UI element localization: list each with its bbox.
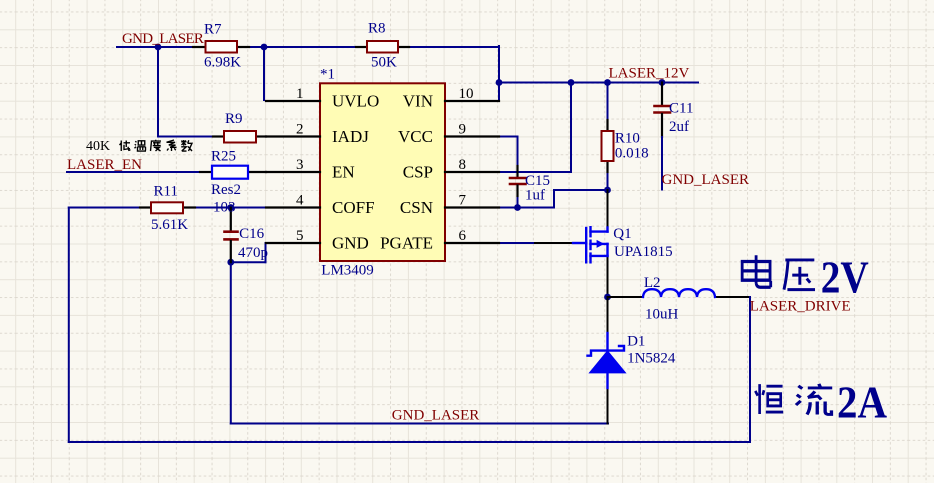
svg-text:10uH: 10uH: [645, 307, 679, 323]
wire L2 coil to LASER_DRIVE corner: [715, 296, 750, 298]
wire R10 bottom segment: [607, 172, 609, 190]
capacitor C15: [510, 166, 526, 196]
svg-text:2A: 2A: [837, 376, 887, 427]
svg-text:5.61K: 5.61K: [151, 217, 188, 233]
hanzi xi (system): [167, 140, 177, 151]
svg-text:0.018: 0.018: [615, 145, 649, 161]
pin 5 GND stub: [266, 242, 320, 244]
svg-text:R11: R11: [154, 184, 178, 200]
inductor L2: [643, 289, 715, 297]
svg-text:GND_LASER: GND_LASER: [122, 31, 204, 47]
wire IADJ branch from top rail to R9: [158, 47, 213, 137]
hanzi wen (temperature): [135, 141, 147, 151]
svg-text:R8: R8: [368, 20, 386, 36]
pin 10 VIN stub: [445, 100, 499, 102]
capacitor C11: [655, 83, 671, 190]
node junction C16 bottom GND net: [227, 259, 234, 266]
node junction COFF at C16 top: [227, 204, 234, 211]
svg-text:R10: R10: [615, 131, 640, 147]
svg-text:PGATE: PGATE: [380, 233, 433, 252]
wire UVLO branch from top rail to pin1: [263, 47, 265, 100]
svg-text:COFF: COFF: [332, 198, 375, 217]
resistor R8: [356, 41, 409, 53]
node junction at C15 bottom pin7: [514, 204, 521, 211]
svg-text:Q1: Q1: [613, 226, 631, 242]
wire D1 anode to GND_LASER: [607, 388, 609, 424]
svg-text:4: 4: [296, 193, 304, 209]
svg-text:VCC: VCC: [398, 127, 433, 146]
IC U1 LM3409 body: [320, 83, 445, 261]
annotation 40K low-temp-coefficient: [86, 139, 192, 154]
node junction LASER_12V at CSP column: [568, 79, 575, 86]
node junction LASER_12V at VIN column: [496, 79, 503, 86]
svg-text:GND_LASER: GND_LASER: [662, 172, 750, 188]
svg-text:6.98K: 6.98K: [204, 55, 241, 71]
annotation voltage 2V: [742, 252, 869, 303]
hanzi du (degree): [151, 140, 162, 151]
svg-text:1N5824: 1N5824: [627, 351, 676, 367]
svg-text:UPA1815: UPA1815: [614, 244, 673, 260]
hanzi heng (constant): [755, 384, 783, 414]
svg-text:9: 9: [459, 122, 467, 138]
hanzi liu (flow): [796, 384, 832, 415]
svg-text:LASER_12V: LASER_12V: [609, 66, 690, 82]
svg-text:2uf: 2uf: [669, 119, 689, 135]
hanzi di (low): [120, 141, 131, 152]
pin 2 IADJ stub: [266, 135, 320, 137]
wire CSP branch from LASER_12V rail to pin8: [499, 83, 571, 173]
svg-text:7: 7: [459, 193, 467, 209]
node junction R10 bottom to Q1 drain: [604, 187, 611, 194]
wire net LASER_EN: [67, 171, 200, 173]
diode D1 1N5824 schottky: [588, 333, 626, 388]
svg-text:R9: R9: [225, 111, 243, 127]
svg-text:2V: 2V: [821, 252, 869, 303]
svg-text:Res2: Res2: [211, 182, 241, 198]
pin 7 CSN stub: [445, 206, 499, 208]
svg-text:UVLO: UVLO: [332, 91, 379, 110]
svg-text:5: 5: [296, 228, 304, 244]
svg-text:470p: 470p: [238, 245, 268, 261]
svg-text:EN: EN: [332, 162, 355, 181]
wire PGATE pin6 to Q1 gate: [499, 242, 573, 244]
svg-text:R25: R25: [211, 148, 236, 164]
svg-text:R7: R7: [204, 21, 222, 37]
wire net LASER_12V rail: [499, 82, 698, 84]
node junction Q1 source / L2 / D1: [604, 294, 611, 301]
wire L2 node to coil: [608, 296, 644, 298]
svg-text:6: 6: [459, 228, 467, 244]
svg-text:GND: GND: [332, 233, 369, 252]
pin 9 VCC stub: [445, 135, 499, 137]
node junction on GND_LASER rail at R7 left: [155, 44, 162, 51]
svg-text:CSN: CSN: [400, 198, 433, 217]
wire VCC pin9 to C15 top: [499, 137, 518, 167]
wire net LASER_DRIVE feedback loop: [69, 208, 750, 443]
resistor R7: [193, 41, 249, 53]
pin 8 CSP stub: [445, 171, 499, 173]
transistor Q1 UPA1815 MOSFET: [573, 227, 608, 262]
wire Q1 source down to L2 node: [607, 257, 609, 297]
pin 3 EN stub: [266, 171, 320, 173]
resistor R9: [213, 131, 266, 143]
node junction LASER_12V at R10 column: [604, 79, 611, 86]
pin 6 PGATE stub: [445, 242, 499, 244]
svg-text:40K: 40K: [86, 139, 110, 154]
hanzi shu (number): [181, 140, 192, 151]
svg-text:GND_LASER: GND_LASER: [392, 407, 480, 423]
capacitor C16: [225, 208, 238, 263]
wire GND pin5 jog to C16 bottom: [231, 243, 266, 262]
resistor R11: [140, 202, 195, 213]
svg-text:3: 3: [296, 157, 304, 173]
wire Q1 drain column: [607, 190, 609, 231]
hanzi dian (electric): [742, 255, 771, 287]
svg-text:10: 10: [459, 86, 474, 102]
svg-text:L2: L2: [644, 275, 661, 291]
svg-text:LASER_EN: LASER_EN: [67, 157, 142, 173]
svg-text:2: 2: [296, 122, 304, 138]
svg-text:CSP: CSP: [403, 162, 433, 181]
svg-text:1: 1: [296, 86, 304, 102]
pin 4 COFF stub: [266, 206, 320, 208]
svg-text:8: 8: [459, 157, 467, 173]
annotation constant-current 2A: [755, 376, 887, 427]
svg-text:*1: *1: [320, 66, 335, 82]
hanzi ya (pressure): [784, 260, 815, 290]
resistor R10 vertical: [602, 83, 614, 173]
wire C15 bottom to pin7 CSN row: [517, 196, 519, 208]
wire R11 right to pin4: [195, 207, 266, 209]
svg-text:50K: 50K: [371, 55, 397, 71]
svg-text:1uf: 1uf: [525, 187, 545, 203]
svg-text:VIN: VIN: [403, 91, 433, 110]
wire net GND_LASER top rail: [117, 46, 499, 101]
wire Q1 source node down to D1 cathode: [607, 297, 609, 333]
svg-text:LM3409: LM3409: [321, 263, 374, 279]
wire net GND_LASER bottom: [231, 262, 608, 423]
node junction LASER_12V at C11 column: [659, 79, 666, 86]
pin 1 UVLO stub: [266, 100, 320, 102]
svg-text:C11: C11: [669, 101, 693, 117]
svg-text:103: 103: [213, 199, 236, 215]
svg-text:C16: C16: [239, 226, 265, 242]
wire CSN pin7 jog to R10 bottom: [499, 190, 608, 208]
svg-text:IADJ: IADJ: [332, 127, 369, 146]
resistor R25: [200, 166, 266, 179]
svg-text:D1: D1: [627, 334, 645, 350]
node junction on GND_LASER rail at pin1 branch: [261, 44, 268, 51]
TEXTS: [332, 91, 433, 252]
